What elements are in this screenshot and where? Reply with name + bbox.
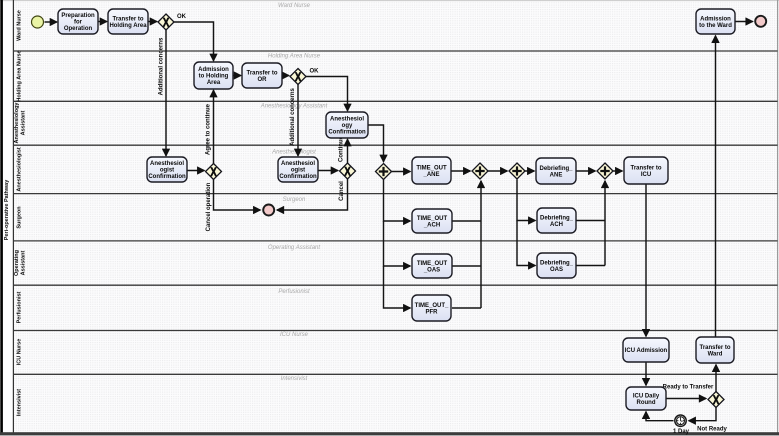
svg-text:OK: OK xyxy=(310,69,320,75)
svg-text:Assistant: Assistant xyxy=(21,250,27,275)
svg-text:Debriefing_: Debriefing_ xyxy=(540,260,574,266)
pool top border xyxy=(0,0,779,2)
lane line Surgeon/OperAssist xyxy=(13,240,777,242)
wire Anesthesiologist Confirmation 1 to gateway G3 xyxy=(187,170,204,172)
svg-text:TIME_OUT: TIME_OUT xyxy=(416,165,447,171)
svg-text:ANE: ANE xyxy=(550,172,563,178)
svg-text:ICU Nurse: ICU Nurse xyxy=(280,332,309,338)
wire ICU Daily Round to gateway G9 xyxy=(666,398,706,400)
task Admission to the Ward xyxy=(696,9,735,34)
wire Anesthesiologist Confirmation 2 to gateway G4 xyxy=(318,170,338,172)
lane line Holding/AnesthAssist xyxy=(13,100,777,102)
svg-text:for: for xyxy=(74,20,83,26)
task Preparation for Operation xyxy=(58,9,98,34)
svg-text:Assistant: Assistant xyxy=(21,110,27,135)
svg-text:Continue: Continue xyxy=(339,135,345,162)
wire G5 branch to TIME_OUT_ACH xyxy=(384,180,411,222)
svg-text:X: X xyxy=(295,71,302,84)
lane line OperAssist/Perfusionist xyxy=(13,284,777,286)
pool bottom bar xyxy=(0,432,779,435)
svg-text:Ward: Ward xyxy=(708,351,723,357)
wire Debriefing_OAS join xyxy=(576,265,605,267)
task ICU Admission xyxy=(623,338,669,362)
svg-text:Transfer to: Transfer to xyxy=(246,70,277,76)
lane line Perfusionist/ICUNurse xyxy=(13,330,777,332)
svg-text:Not Ready: Not Ready xyxy=(697,427,727,433)
wire Transfer to Ward up to Admission to the Ward xyxy=(715,36,717,337)
task Anesthesiology Confirmation xyxy=(326,112,368,138)
svg-text:Admission: Admission xyxy=(700,16,731,22)
wire G8 to Transfer to ICU xyxy=(613,170,622,172)
gateway G8 plus xyxy=(597,163,613,179)
svg-text:Round: Round xyxy=(637,400,656,406)
svg-text:Anesthesiologist: Anesthesiologist xyxy=(271,149,316,155)
timer event 1 Day xyxy=(675,415,686,426)
task Transfer to ICU xyxy=(624,157,668,184)
svg-text:Operation: Operation xyxy=(64,26,93,32)
task TIME_OUT_ANE xyxy=(412,157,451,184)
svg-text:Operating: Operating xyxy=(14,250,20,276)
end event cancel (Surgeon) xyxy=(263,205,274,216)
svg-text:Operating Assistant: Operating Assistant xyxy=(268,245,320,251)
svg-text:TIME_OUT: TIME_OUT xyxy=(417,216,448,222)
wire G9 Ready to Transfer up to Transfer to Ward xyxy=(715,365,717,392)
svg-text:Anesthesiol: Anesthesiol xyxy=(150,161,184,167)
pool label column background xyxy=(3,0,14,432)
task Debriefing_OAS xyxy=(537,253,576,278)
wire Admission to Holding Area to Transfer to OR xyxy=(233,75,241,77)
svg-text:ogist: ogist xyxy=(291,168,305,174)
wire G7 branch to Debriefing_ACH xyxy=(517,180,535,221)
pool label separator xyxy=(12,0,14,433)
svg-text:OAS: OAS xyxy=(550,267,563,273)
gateway G5 plus xyxy=(376,164,392,180)
svg-text:Intensivist: Intensivist xyxy=(281,376,308,382)
svg-text:Holding Area Nurse: Holding Area Nurse xyxy=(17,50,23,101)
lane line ICUNurse/Intensivist xyxy=(13,373,777,375)
svg-text:to Holding: to Holding xyxy=(199,74,229,80)
svg-text:1 Day: 1 Day xyxy=(673,429,690,435)
wire G3 Agree to continue up to Admission to Holding Area xyxy=(213,90,215,163)
svg-text:Ward Nurse: Ward Nurse xyxy=(17,10,23,41)
lane line AnesthAssist/Anesthesiologist xyxy=(13,144,777,146)
svg-text:Surgeon: Surgeon xyxy=(17,206,23,229)
gateway G1 X xyxy=(158,14,174,30)
wire Debriefing_ANE to gateway G8 xyxy=(576,170,595,172)
svg-text:Additional concerns: Additional concerns xyxy=(290,88,296,146)
pool right border xyxy=(777,0,779,433)
lane line Anesthesiologist/Surgeon xyxy=(13,193,777,195)
svg-text:ogist: ogist xyxy=(160,168,174,174)
task Transfer to Ward xyxy=(696,337,734,363)
wire timer back to ICU Daily Round xyxy=(646,412,674,421)
svg-text:Anesthesiologist: Anesthesiologist xyxy=(17,147,23,191)
svg-text:TIME_OUT_: TIME_OUT_ xyxy=(415,303,449,309)
svg-text:TIME_OUT: TIME_OUT xyxy=(417,261,448,267)
end event final (Ward) xyxy=(755,16,766,27)
wire join up to G6 xyxy=(480,181,482,308)
wire Admission to the Ward to end event xyxy=(735,21,753,23)
wire G4 Continue up to Anesthesiology Confirmation xyxy=(347,139,349,163)
task TIME_OUT_OAS xyxy=(412,254,452,278)
svg-text:_OAS: _OAS xyxy=(423,267,440,273)
wire G1 Additional concerns to Anesthesiologist Confirmation 1 xyxy=(165,30,167,156)
svg-text:X: X xyxy=(163,16,170,29)
task Anesthesiologist Confirmation 1 xyxy=(147,157,187,182)
svg-text:Debriefing_: Debriefing_ xyxy=(540,215,574,221)
svg-text:Confirmation: Confirmation xyxy=(279,174,317,180)
svg-text:Debriefing_: Debriefing_ xyxy=(539,166,573,172)
wire G5 branch to TIME_OUT_OAS xyxy=(384,221,411,266)
wire G9 Not Ready to timer xyxy=(689,408,716,421)
wire G2 Additional concerns to Anesthesiologist Confirmation 2 xyxy=(297,85,299,156)
task Debriefing_ACH xyxy=(537,208,576,233)
task ICU Daily Round xyxy=(626,387,666,410)
wire Preparation to Transfer to Holding Area xyxy=(98,21,107,23)
svg-text:Ready to Transfer: Ready to Transfer xyxy=(663,384,714,390)
svg-text:Transfer to: Transfer to xyxy=(630,165,661,171)
svg-text:ICU Daily: ICU Daily xyxy=(633,393,660,399)
wire G3 Cancel operation to end event xyxy=(214,180,261,211)
wire G5 branch to TIME_OUT_PFR xyxy=(384,266,411,308)
task TIME_OUT_PFR xyxy=(412,295,451,321)
wire TIME_OUT_ACH join xyxy=(452,220,481,222)
svg-text:_ANE: _ANE xyxy=(422,172,439,178)
svg-text:Cancel: Cancel xyxy=(339,181,345,201)
gateway G4 X xyxy=(340,163,356,179)
svg-text:Surgeon: Surgeon xyxy=(283,197,306,203)
svg-text:ICU Nurse: ICU Nurse xyxy=(17,339,23,366)
svg-text:Anesthesiol: Anesthesiol xyxy=(330,117,364,123)
svg-text:to the Ward: to the Ward xyxy=(699,23,732,29)
svg-text:Additional concerns: Additional concerns xyxy=(159,37,165,95)
svg-text:ICU: ICU xyxy=(641,172,651,178)
svg-text:OR: OR xyxy=(258,77,268,83)
svg-text:Intensivist: Intensivist xyxy=(17,389,23,416)
svg-text:Perfusionist: Perfusionist xyxy=(278,289,310,295)
svg-text:Agree to continue: Agree to continue xyxy=(206,103,212,155)
wire TIME_OUT_OAS join xyxy=(452,265,481,267)
gateway G6 plus xyxy=(472,163,488,179)
task Transfer to Holding Area xyxy=(108,9,148,34)
wire G2 OK to Anesthesiology Confirmation xyxy=(306,77,348,111)
svg-text:OK: OK xyxy=(177,14,187,20)
wire G7 branch to Debriefing_OAS xyxy=(517,221,535,266)
svg-text:Transfer to: Transfer to xyxy=(112,16,143,22)
wire G5 to TIME_OUT_ANE xyxy=(392,171,411,173)
svg-text:Cancel operation: Cancel operation xyxy=(206,182,212,231)
task Transfer to OR xyxy=(242,63,282,88)
task Admission to Holding Area xyxy=(194,62,233,89)
svg-text:Transfer to: Transfer to xyxy=(699,345,730,351)
wire Transfer to Holding Area to gateway G1 xyxy=(148,21,157,23)
svg-text:ICU Admission: ICU Admission xyxy=(625,348,668,354)
svg-text:Anesthesiol: Anesthesiol xyxy=(281,161,315,167)
svg-text:Perfusionist: Perfusionist xyxy=(17,291,23,323)
pool left border xyxy=(0,0,3,434)
svg-text:Peri-operative Pathway: Peri-operative Pathway xyxy=(4,179,10,240)
svg-text:X: X xyxy=(210,166,217,179)
wire G1 OK to Admission to Holding Area xyxy=(174,22,214,61)
wire TIME_OUT_ANE to gateway G6 xyxy=(451,170,470,172)
svg-text:_ACH: _ACH xyxy=(423,222,440,228)
task Debriefing_ANE xyxy=(536,158,576,184)
svg-text:Area: Area xyxy=(207,80,221,86)
lane label Anesthesiology Assistant xyxy=(14,102,27,144)
svg-text:Holding Area: Holding Area xyxy=(109,23,147,29)
svg-text:ACH: ACH xyxy=(550,222,563,228)
task Anesthesiologist Confirmation 2 xyxy=(278,157,318,182)
svg-text:X: X xyxy=(344,165,351,178)
wire G7 to Debriefing_ANE xyxy=(525,170,534,172)
svg-text:Holding Area Nurse: Holding Area Nurse xyxy=(268,54,321,60)
svg-text:PFR: PFR xyxy=(426,309,439,315)
wire G6 to G7 xyxy=(488,170,507,172)
wire Transfer to OR to gateway G2 xyxy=(282,75,289,77)
lane label Operating Assistant xyxy=(14,250,27,276)
task TIME_OUT_ACH xyxy=(412,209,452,233)
gateway G3 X xyxy=(206,164,222,180)
svg-text:Preparation: Preparation xyxy=(61,13,95,19)
svg-text:Admission: Admission xyxy=(198,67,229,73)
svg-text:Confirmation: Confirmation xyxy=(328,130,366,136)
wire join up to G8 xyxy=(604,181,606,266)
wire TIME_OUT_PFR join xyxy=(452,307,481,309)
wire start to Preparation xyxy=(45,21,57,23)
gateway G2 X xyxy=(290,69,306,85)
svg-text:Ward Nurse: Ward Nurse xyxy=(278,3,311,9)
start event xyxy=(32,16,44,28)
wire Anesthesiology Confirmation to gateway G5 xyxy=(368,125,384,162)
svg-text:ogy: ogy xyxy=(342,123,353,129)
wire Debriefing_ACH join xyxy=(576,220,605,222)
gateway G7 plus xyxy=(509,163,525,179)
wire ICU Admission down to ICU Daily Round xyxy=(645,362,647,385)
lane line Ward/Holding xyxy=(13,50,777,52)
svg-text:X: X xyxy=(713,394,720,407)
wire Transfer to ICU down to ICU Admission xyxy=(645,184,647,336)
wire G4 Cancel to end event xyxy=(277,179,348,210)
svg-text:Confirmation: Confirmation xyxy=(148,174,186,180)
gateway G9 X xyxy=(708,392,724,408)
svg-text:Anesthesiology: Anesthesiology xyxy=(14,102,20,144)
